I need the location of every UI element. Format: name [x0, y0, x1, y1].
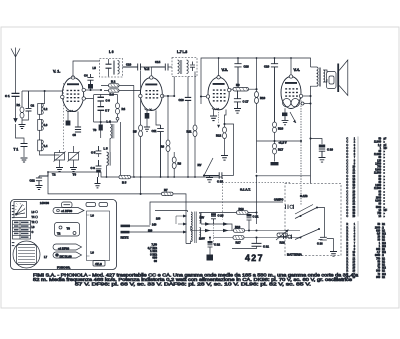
svg-text:R5: R5	[133, 129, 137, 133]
capacitor C18	[234, 58, 241, 88]
resistor R7	[162, 192, 187, 243]
chassis box	[11, 200, 117, 270]
wire antenna to T1	[16, 124, 25, 143]
rail y224	[201, 224, 232, 231]
svg-text:C 1: C 1	[5, 94, 10, 98]
tap arrows	[183, 215, 187, 234]
svg-text:C12: C12	[30, 179, 36, 183]
battery compartment box S.1/B	[285, 184, 341, 256]
resistor R2	[101, 84, 134, 87]
capacitor C24	[319, 237, 331, 240]
svg-text:RETE: RETE	[121, 236, 129, 240]
grid wire node to V1	[22, 90, 62, 92]
svg-text:DK DL96: DK DL96	[60, 255, 72, 259]
svg-text:FONOGR.: FONOGR.	[57, 265, 71, 269]
svg-text:110: 110	[148, 229, 153, 233]
tube slot 2 DF96	[53, 244, 82, 250]
coil L3	[38, 114, 44, 130]
voltage list	[148, 243, 158, 264]
resistor R5b	[139, 125, 143, 137]
gang dashed link	[63, 83, 65, 150]
tuning capacitor T3 (gang section)	[68, 146, 80, 168]
svg-text:V.2: V.2	[144, 67, 149, 71]
resistor R9	[231, 88, 257, 92]
svg-text:140: 140	[152, 223, 157, 227]
resistor R17a	[271, 144, 279, 166]
svg-text:T6: T6	[93, 128, 97, 132]
capacitor C21b	[247, 213, 252, 231]
svg-text:C11: C11	[152, 129, 157, 133]
capacitor C23	[211, 213, 216, 225]
svg-text:R4: R4	[122, 107, 126, 111]
svg-text:C2: C2	[31, 104, 35, 108]
coil L4 (osc)	[107, 120, 114, 153]
wire x134	[133, 85, 135, 177]
resistor R12	[223, 127, 227, 139]
junction dots	[255, 229, 257, 231]
svg-text:R6: R6	[161, 145, 165, 149]
svg-text:C14: C14	[155, 60, 161, 64]
svg-text:R 2: R 2	[111, 80, 116, 84]
IF can box T3	[55, 223, 80, 237]
wire V4 plate	[303, 95, 311, 97]
svg-text:R8: R8	[178, 162, 182, 166]
small box L8	[93, 261, 105, 267]
svg-text:V.3.: V.3.	[222, 68, 228, 72]
resistor R15	[273, 122, 277, 144]
antenna A1	[11, 48, 20, 94]
svg-text:4TL8: 4TL8	[95, 262, 102, 266]
tube slot 3 DK DL	[53, 252, 82, 258]
frame wire right	[120, 122, 122, 177]
capacitor C5b	[96, 146, 102, 157]
capacitor C12	[36, 172, 48, 185]
wire V1 screen to right	[85, 95, 93, 122]
svg-text:R7: R7	[164, 188, 168, 192]
mains cable RETE	[121, 225, 184, 234]
svg-text:L3: L3	[44, 123, 48, 127]
coil L5 (osc)	[104, 147, 111, 178]
svg-text:C4: C4	[84, 74, 88, 78]
capacitor C19	[271, 58, 278, 122]
svg-text:BATTERIA: BATTERIA	[287, 253, 303, 257]
svg-text:160: 160	[156, 217, 161, 221]
capacitor C11	[157, 125, 164, 177]
resistor R17b	[233, 236, 244, 240]
ground	[19, 125, 26, 129]
tube V1	[61, 76, 86, 112]
svg-text:R17: R17	[278, 148, 284, 152]
ground	[56, 168, 63, 172]
svg-text:C 6: C 6	[106, 99, 111, 103]
svg-text:C: C	[32, 231, 34, 234]
tube V2	[139, 76, 164, 111]
svg-text:L 4: L 4	[107, 120, 112, 124]
V4 cathode parts	[282, 108, 296, 125]
top trimmer box b	[86, 203, 96, 207]
svg-text:C 17: C 17	[243, 100, 249, 104]
tuning capacitor T2 (gang section)	[54, 150, 66, 168]
svg-text:C 7: C 7	[105, 109, 110, 113]
top bus left	[73, 61, 100, 78]
V1 cathode parts	[66, 112, 82, 133]
node +1,2V	[257, 140, 302, 142]
wire y173	[257, 175, 311, 177]
svg-text:R9: R9	[236, 83, 240, 87]
rail y230.5	[191, 226, 301, 231]
svg-text:kΩ: kΩ	[382, 276, 385, 279]
svg-text:T3: T3	[73, 173, 77, 177]
capacitor C16	[185, 97, 191, 177]
capacitor C10	[123, 64, 152, 78]
bus wire left	[48, 172, 223, 177]
svg-text:L5: L5	[93, 66, 97, 70]
capacitor C1	[12, 93, 20, 122]
svg-text:R 5: R 5	[122, 180, 127, 184]
svg-text:C18: C18	[244, 65, 250, 69]
svg-text:R16: R16	[235, 225, 241, 229]
ground (osc)	[95, 177, 101, 188]
ground battery	[330, 239, 337, 257]
svg-text:V.4.: V.4.	[294, 68, 300, 72]
resistor R6	[166, 96, 170, 177]
frame antenna L6	[87, 211, 110, 261]
transformer T5	[309, 67, 324, 176]
svg-text:T 1: T 1	[14, 148, 19, 152]
black terminal block	[207, 255, 214, 261]
svg-text:T2: T2	[52, 173, 56, 177]
svg-text:R18: R18	[280, 241, 286, 245]
svg-text:L2: L2	[44, 107, 48, 111]
svg-text:V. 1.: V. 1.	[53, 70, 60, 74]
svg-text:L6: L6	[91, 214, 95, 218]
bus wire	[201, 58, 311, 104]
coil L4a	[38, 130, 44, 151]
top wire y210.5	[155, 210, 188, 212]
IF transformer box L5/L6	[100, 59, 123, 78]
left column labels	[32, 211, 36, 234]
wire node	[94, 95, 118, 104]
wire to tuning caps	[40, 151, 60, 155]
wire down to L2	[42, 91, 45, 104]
svg-text:C 21: C 21	[263, 245, 269, 249]
transformer T4	[186, 211, 201, 244]
capacitor C7	[98, 107, 105, 122]
resistor R13	[237, 211, 249, 215]
tube V3	[206, 58, 231, 110]
svg-text:C16: C16	[179, 98, 185, 102]
svg-text:C 21: C 21	[253, 215, 259, 219]
capacitor C22	[208, 238, 213, 255]
svg-text:R12: R12	[216, 134, 222, 138]
svg-text:S.1/B: S.1/B	[300, 194, 308, 198]
wire node to x233.5	[225, 124, 234, 176]
tube V4	[281, 58, 303, 109]
svg-text:+1 DF96: +1 DF96	[61, 209, 73, 213]
capacitor C6	[98, 95, 105, 107]
svg-text:2·DC96: 2·DC96	[40, 201, 49, 205]
dial box	[14, 202, 27, 218]
svg-text:C 6: C 6	[91, 166, 96, 170]
svg-text:+1,2 V: +1,2 V	[279, 141, 287, 145]
top trimmer box c	[99, 203, 108, 207]
wire y202	[150, 202, 283, 225]
resistor R3	[104, 89, 141, 92]
wire x301 speaker/battery	[300, 98, 302, 205]
station table	[13, 221, 31, 240]
ground	[21, 158, 28, 162]
capacitor C16b	[204, 172, 222, 178]
node wire	[94, 121, 118, 123]
switch blade S1a	[295, 205, 325, 238]
svg-text:T2: T2	[57, 232, 61, 236]
ground	[221, 156, 228, 161]
wire y194 row	[48, 172, 162, 194]
ground	[206, 176, 213, 183]
left inner tick column	[12, 205, 15, 246]
svg-text:R11: R11	[187, 130, 192, 134]
svg-text:C5: C5	[73, 133, 77, 137]
resistor R5 (on bus)	[119, 175, 131, 179]
battery plug bottom	[284, 235, 292, 240]
svg-text:R16: R16	[278, 127, 284, 131]
V2 cathode parts	[144, 110, 161, 131]
svg-text:C 23: C 23	[218, 214, 224, 218]
IF transformer box L7 L8	[172, 58, 197, 77]
wires from L7L8	[173, 77, 175, 97]
chassis speaker circle	[13, 241, 40, 268]
svg-text:C 22: C 22	[214, 243, 220, 247]
svg-text:R17: R17	[236, 241, 242, 245]
switch blade S1b	[295, 228, 320, 240]
coil T6 (osc)	[99, 122, 103, 138]
speaker terminal	[301, 102, 304, 105]
resistor R4	[116, 103, 120, 122]
capacitor C20	[311, 139, 326, 163]
capacitor C4	[87, 74, 93, 90]
svg-text:T3: T3	[67, 227, 71, 231]
capacitor C21	[232, 238, 262, 249]
wire x140.6 C10 drop	[140, 71, 142, 194]
tube slot 1 DF96	[53, 208, 84, 214]
resistor R1	[20, 91, 24, 124]
rail y237.5	[214, 237, 301, 239]
svg-text:L.7 L.8: L.7 L.8	[177, 50, 187, 54]
mech link S1 A.T.	[223, 181, 291, 183]
svg-text:CAMPO: CAMPO	[274, 199, 283, 202]
loudspeaker	[323, 60, 348, 96]
svg-text:60: 60	[154, 259, 158, 263]
svg-text:RV: RV	[198, 163, 202, 167]
resistor R11	[193, 125, 197, 177]
capacitor C17	[234, 91, 241, 113]
svg-text:L6: L6	[91, 251, 95, 255]
svg-text:L4: L4	[44, 144, 48, 148]
V3 cathode parts	[210, 110, 226, 129]
wave switch S2	[204, 158, 213, 176]
top trimmer box a	[62, 202, 73, 208]
svg-text:R10: R10	[260, 96, 266, 100]
potentiometer R18	[276, 230, 289, 241]
svg-text:C10: C10	[126, 63, 132, 67]
left column circles	[35, 211, 37, 223]
capacitor C2	[22, 91, 32, 120]
wire y212.5 to caps	[201, 212, 257, 214]
node wire	[201, 96, 208, 98]
svg-text:95V: 95V	[200, 216, 205, 220]
svg-text:C 5: C 5	[91, 151, 96, 155]
resistor R16	[234, 229, 245, 233]
svg-text:R13: R13	[239, 207, 245, 211]
svg-text:L 5: L 5	[104, 147, 109, 151]
wire junctions	[47, 171, 196, 178]
svg-text:C 24: C 24	[317, 242, 323, 246]
ground	[70, 168, 77, 172]
svg-text:S.1 A.T.: S.1 A.T.	[240, 188, 251, 192]
wire V1 plate to right	[85, 89, 101, 91]
svg-text:R1: R1	[17, 103, 21, 107]
svg-text:L 6: L 6	[109, 50, 114, 54]
svg-text:C 20: C 20	[327, 148, 333, 152]
svg-text:427: 427	[245, 253, 264, 263]
svg-text:+2 DF96: +2 DF96	[58, 247, 70, 251]
coil L2	[38, 104, 44, 115]
switch link dashed	[213, 220, 215, 246]
capacitor C6b	[96, 160, 102, 177]
svg-text:57 V. DF96: pl. 68 V, sc. 33 V: 57 V. DF96: pl. 68 V, sc. 33 V. DAF96: p…	[75, 282, 311, 287]
svg-text:110V: 110V	[199, 237, 205, 241]
battery plug top	[286, 205, 294, 210]
ground	[36, 186, 43, 190]
svg-text:C19: C19	[264, 65, 270, 69]
resistor R10	[255, 58, 259, 173]
resistor R8	[172, 152, 176, 177]
